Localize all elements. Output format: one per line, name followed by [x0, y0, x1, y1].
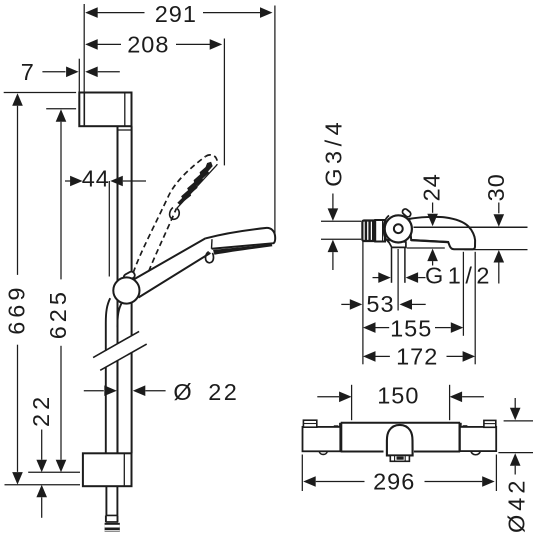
- solid shower handle: [133, 238, 213, 298]
- dim 24 tail: [432, 203, 434, 213]
- svg-text:669: 669: [3, 284, 29, 335]
- dim 44 left line: [65, 180, 71, 182]
- dashed shower spray band: [177, 162, 212, 205]
- dim 172 left arrow: [363, 351, 376, 362]
- svg-text:22: 22: [28, 393, 54, 427]
- dim 24 up arrow: [427, 249, 438, 262]
- diameter 42 extension top: [504, 420, 533, 422]
- dim 296 right arrow: [482, 476, 495, 487]
- dim 22 top arrow: [36, 460, 47, 473]
- dim 44 right arrow: [110, 176, 123, 187]
- hose conical fitting: [105, 523, 120, 532]
- inlet nut ribs: [366, 221, 373, 242]
- body center circle: [394, 224, 403, 233]
- dim 30 down arrow: [494, 214, 505, 227]
- svg-text:53: 53: [366, 291, 394, 317]
- extension line top inner (y108.7): [46, 108, 76, 110]
- dim 155 right arrow: [451, 322, 464, 333]
- top bracket inner right line: [124, 93, 126, 127]
- hose lower right line: [116, 361, 118, 516]
- svg-text:7: 7: [21, 59, 35, 85]
- bar left line: [117, 126, 119, 453]
- slider roller circle: [113, 277, 139, 303]
- svg-text:24: 24: [419, 173, 445, 201]
- hose fitting thin white line: [105, 530, 120, 531]
- dim 669 bottom arrow: [12, 472, 23, 485]
- body back block: [375, 220, 385, 242]
- dim 208 line: [87, 43, 211, 45]
- dim 208 right arrow: [210, 39, 223, 50]
- body top line: [341, 422, 460, 424]
- svg-text:150: 150: [377, 383, 419, 409]
- dim 296 line right: [425, 481, 483, 483]
- svg-text:Ø 22: Ø 22: [173, 379, 239, 405]
- dim 150 right line: [462, 396, 484, 398]
- dim 7 right line: [98, 71, 120, 73]
- solid shower head: [206, 228, 275, 249]
- bar right line: [131, 126, 133, 453]
- hose end side edges: [106, 515, 118, 522]
- svg-text:G3/4: G3/4: [321, 118, 347, 187]
- extension line bottom inner (y472.3): [28, 471, 80, 473]
- dim 53 right line: [412, 303, 426, 305]
- dim 44 right line: [123, 180, 146, 182]
- right union nut thick line: [459, 423, 462, 452]
- thermostat body circle: [385, 215, 412, 242]
- solid shower hook: [206, 252, 214, 263]
- top bracket wall plate line: [83, 93, 85, 127]
- dim 7 left arrow: [66, 67, 79, 78]
- handle skirt inner lines: [395, 456, 406, 461]
- G3/4 dim upper tail: [332, 194, 334, 209]
- dashed shower face edge (solid): [177, 165, 217, 209]
- right dark tick: [463, 425, 468, 427]
- extension line x275 (solid head): [274, 6, 276, 240]
- dim 155 line left: [376, 327, 390, 329]
- extension line x112 (44 dim to slider): [108, 181, 110, 277]
- dim 150 left arrow: [339, 392, 352, 403]
- dim 291 right arrow: [260, 7, 273, 18]
- left escutcheon: [303, 427, 341, 451]
- dim 291 line: [87, 12, 261, 14]
- cartridge ring arc: [384, 215, 389, 242]
- svg-text:291: 291: [155, 1, 197, 27]
- extension line x224 (dashed head): [223, 39, 225, 166]
- inlet nut: [362, 221, 375, 242]
- svg-text:Ø42: Ø42: [503, 477, 529, 533]
- break mark upper: [93, 331, 139, 357]
- svg-text:296: 296: [373, 468, 415, 494]
- dim 7 left line: [42, 71, 65, 73]
- dashed shower hook: [170, 208, 180, 220]
- diameter 42 extension bottom: [498, 452, 533, 454]
- extension line x496: [495, 455, 497, 492]
- G3/4 dim top arrow: [328, 208, 339, 221]
- dim 669 line lower: [17, 345, 19, 472]
- dim 669 line upper: [17, 106, 19, 275]
- handle dome: [387, 425, 413, 456]
- dim G1/2 left line: [373, 277, 380, 279]
- dim 208 left arrow: [85, 39, 98, 50]
- handle skirt: [390, 455, 409, 461]
- dim 24 lower tail: [432, 261, 434, 265]
- dim 7 right arrow: [85, 67, 98, 78]
- diameter 42 bottom tail: [514, 466, 516, 475]
- G3/4 dim lower tail: [332, 252, 334, 270]
- spout underside line: [411, 240, 448, 242]
- axis extension line (y227): [414, 226, 528, 228]
- dim 24 down arrow: [427, 214, 438, 227]
- extension line x351: [351, 385, 353, 420]
- spout: [409, 217, 475, 249]
- svg-text:155: 155: [390, 315, 432, 341]
- G3/4 dim bottom arrow: [328, 240, 339, 253]
- svg-text:208: 208: [127, 31, 169, 57]
- dim diameter 22 left arrow: [104, 385, 117, 396]
- G3/4 extension line upper: [321, 220, 361, 222]
- dashed shower handle right edge: [143, 209, 177, 289]
- dim 172 line right: [447, 355, 463, 357]
- bottom wall bracket: [83, 453, 132, 486]
- top bracket lower lip: [118, 129, 132, 131]
- dim G1/2 right line: [418, 277, 425, 279]
- extension line bottom outer (y484.7): [5, 484, 81, 486]
- dashed shower handle left edge: [131, 198, 168, 282]
- hose pipe stub right: [404, 247, 406, 282]
- dim 155 line right: [435, 327, 451, 329]
- dim G1/2 right arrow: [406, 272, 419, 283]
- dim diameter 22 left line: [84, 390, 104, 392]
- dim diameter 22 right line: [145, 390, 165, 392]
- extension line x449: [449, 385, 451, 420]
- diameter 42 down arrow: [510, 408, 521, 421]
- left cap: [303, 420, 316, 427]
- hose pipe stub left: [391, 247, 393, 282]
- extension line x302: [301, 455, 303, 492]
- hose lower left line: [105, 367, 108, 515]
- svg-text:44: 44: [82, 166, 110, 192]
- svg-text:G1/2: G1/2: [425, 262, 494, 288]
- dim 625 line lower: [60, 346, 62, 460]
- dim 296 left arrow: [303, 476, 316, 487]
- bottom bracket inner right line: [123, 453, 125, 486]
- dashed shower head top cap: [206, 155, 218, 165]
- left check nub: [319, 452, 327, 455]
- outlet lower extension right (y249.6): [464, 249, 527, 251]
- dim 22 bottom arrow: [36, 485, 47, 498]
- extension line x475 (spout tip): [474, 252, 476, 364]
- svg-text:30: 30: [483, 173, 509, 201]
- body foot: [388, 240, 406, 248]
- extension line x84 (wall/bracket): [83, 4, 85, 92]
- left dark tick: [334, 425, 339, 427]
- dim 22 upper line: [41, 430, 43, 460]
- right escutcheon: [460, 427, 496, 451]
- right cap inner line: [484, 423, 496, 425]
- extension line top outer (y92.5): [4, 92, 76, 94]
- diameter 42 top tail: [514, 398, 516, 410]
- dim 44 left arrow: [70, 176, 83, 187]
- dim 172 right arrow: [463, 351, 476, 362]
- dim 150 left line: [317, 396, 339, 398]
- solid shower spray band: [213, 244, 272, 255]
- left union nut thick line: [339, 423, 342, 452]
- G3/4 extension line lower: [321, 238, 361, 240]
- dim 669 top arrow: [12, 93, 23, 106]
- dim diameter 22 right arrow: [133, 385, 146, 396]
- body bottom line: [341, 451, 460, 453]
- dim 53 right arrow: [400, 299, 413, 310]
- hose fitting white band: [105, 525, 120, 528]
- dim 30 lower tail: [498, 263, 500, 284]
- solid shower head joint line: [211, 239, 214, 249]
- dim 53 left arrow: [350, 299, 363, 310]
- right cap: [484, 420, 496, 427]
- hose end: lower section line: [106, 515, 118, 522]
- hose pipe centerline: [397, 249, 399, 311]
- dim 172 line left: [376, 355, 390, 357]
- right check nub: [471, 451, 480, 455]
- dim 625 top arrow: [56, 109, 67, 122]
- dim 22 lower line: [41, 497, 43, 518]
- dashed shower head left edge: [168, 156, 206, 197]
- outlet lower extension left (y248): [407, 247, 445, 249]
- break mark lower: [100, 344, 147, 370]
- dim 30 tail: [498, 203, 500, 214]
- dim 296 line left: [316, 481, 365, 483]
- diameter 42 up arrow: [510, 453, 521, 466]
- slider clamp tab: [123, 271, 136, 282]
- dim 625 line upper: [60, 122, 62, 280]
- dim G1/2 left arrow: [378, 272, 391, 283]
- dim 155 left arrow: [363, 322, 376, 333]
- svg-text:625: 625: [45, 288, 71, 339]
- dim 53 left line: [341, 303, 350, 305]
- left cap inner line: [303, 423, 316, 425]
- hose upper curve from slider: [106, 298, 110, 351]
- dim 30 up arrow: [494, 250, 505, 263]
- dim 291 left arrow: [85, 7, 98, 18]
- body knob tab: [401, 208, 411, 218]
- handle skirt slot: [397, 456, 404, 459]
- extension line x463 (outlet): [462, 252, 464, 336]
- extension line x79 (7 dim): [78, 59, 80, 93]
- svg-text:172: 172: [396, 343, 438, 369]
- top wall bracket: [79, 93, 131, 127]
- dim 150 right arrow: [450, 392, 463, 403]
- dim 625 bottom arrow: [56, 460, 67, 473]
- wall line: [362, 241, 364, 364]
